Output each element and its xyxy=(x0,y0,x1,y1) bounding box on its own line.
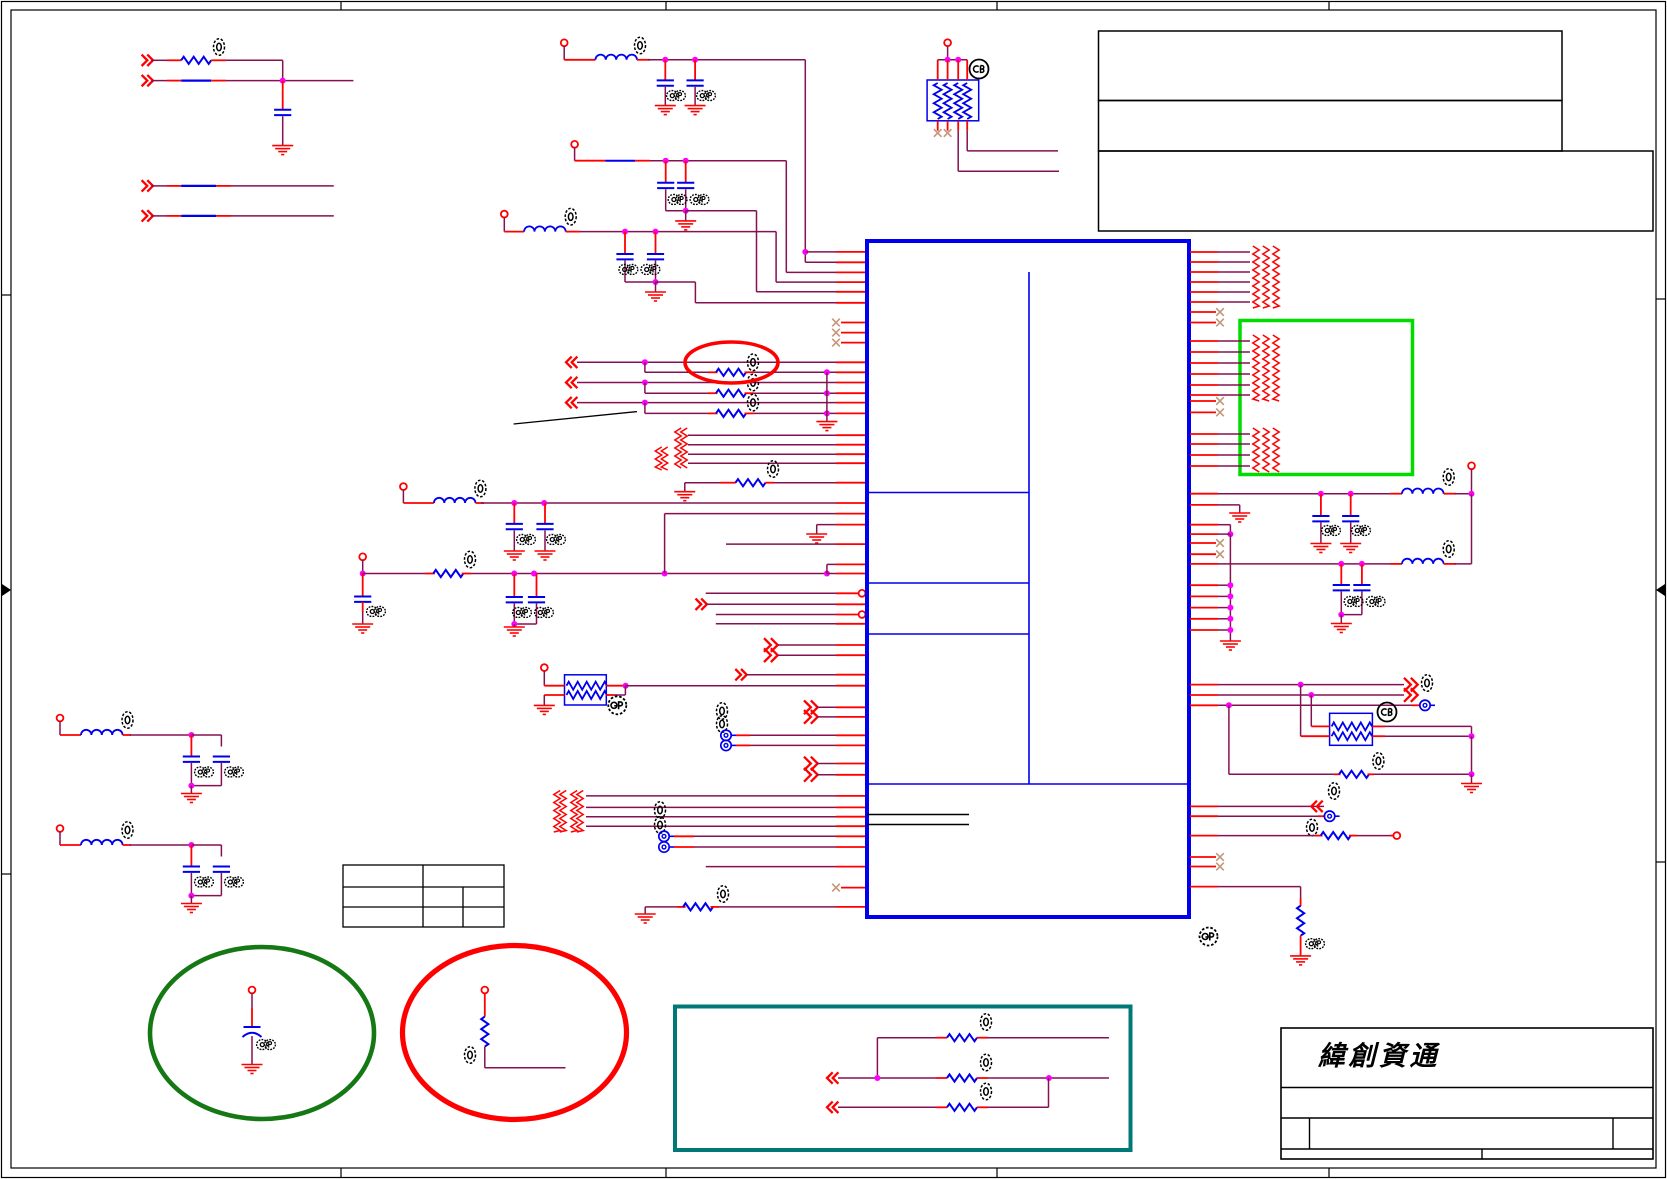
svg-text:緯創資通: 緯創資通 xyxy=(1317,1041,1440,1071)
